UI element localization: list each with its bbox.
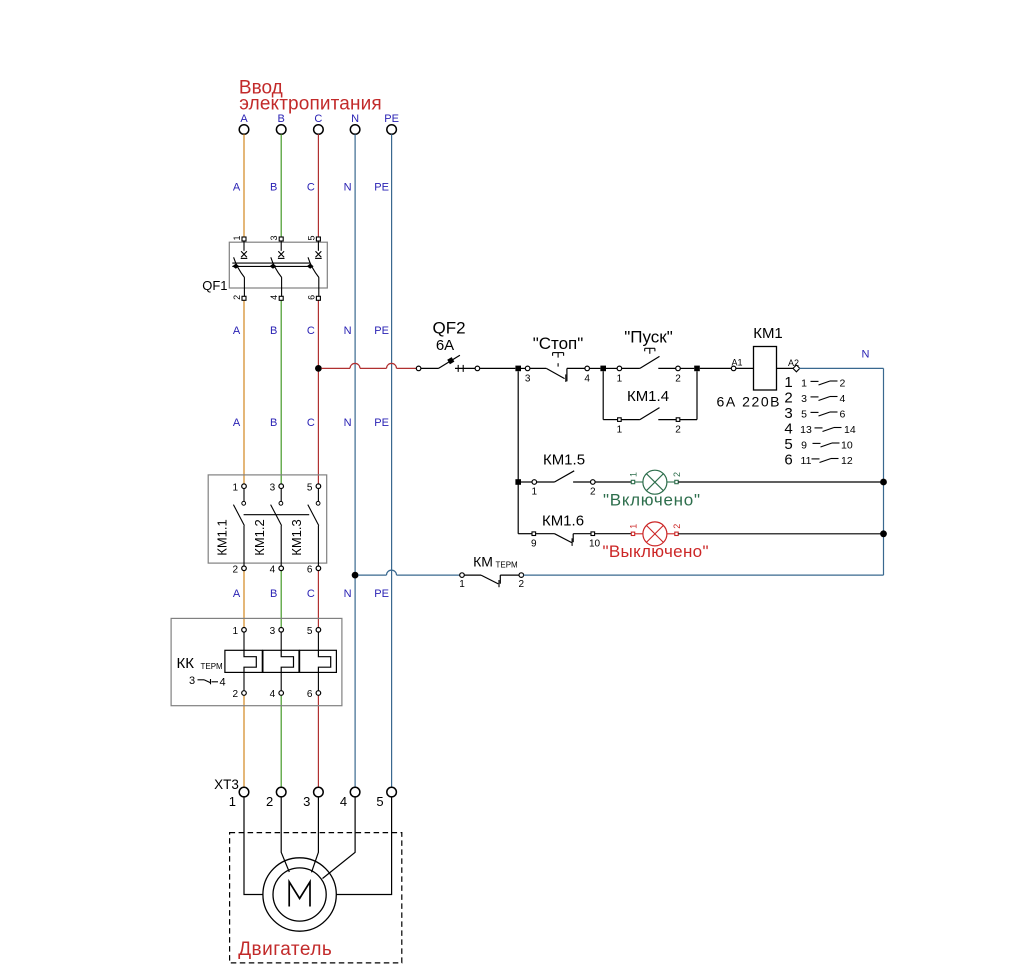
QF1 pole 3 <box>316 237 320 241</box>
svg-text:КМ1.3: КМ1.3 <box>289 519 304 555</box>
svg-text:10: 10 <box>589 539 601 550</box>
svg-text:4: 4 <box>340 794 347 809</box>
svg-text:5: 5 <box>376 794 383 809</box>
svg-text:3: 3 <box>303 794 310 809</box>
svg-text:А2: А2 <box>788 358 799 368</box>
svg-text:A: A <box>240 113 248 125</box>
wire PE (blue) <box>391 134 393 787</box>
svg-text:B: B <box>278 113 285 125</box>
svg-text:5: 5 <box>784 436 792 453</box>
svg-text:КМ1: КМ1 <box>753 325 783 342</box>
svg-text:5: 5 <box>307 626 313 637</box>
enclosure Двигатель (dashed) <box>230 833 402 963</box>
KM1 main pole КМ1.3 <box>316 484 321 489</box>
wire XT3-4 to motor <box>323 797 356 879</box>
node on N return (red lamp) <box>880 530 887 537</box>
svg-text:2: 2 <box>675 425 681 436</box>
XT3 terminal 3 <box>314 787 324 797</box>
svg-text:6: 6 <box>784 452 792 469</box>
svg-text:3: 3 <box>270 483 276 494</box>
svg-text:PE: PE <box>374 588 389 600</box>
XT3 terminal 1 <box>239 787 249 797</box>
svg-text:3: 3 <box>801 393 807 405</box>
KM1 main pole КМ1.2 <box>279 484 284 489</box>
node on wire N <box>352 572 359 579</box>
KK heater pole 1 <box>242 628 247 633</box>
svg-text:Двигатель: Двигатель <box>238 939 332 960</box>
XT3 terminal 4 <box>350 787 360 797</box>
svg-text:ТЕРМ: ТЕРМ <box>496 561 518 570</box>
svg-text:КМ1.5: КМ1.5 <box>543 452 585 469</box>
QF1 pole 1 <box>242 237 246 241</box>
svg-text:C: C <box>307 325 315 337</box>
svg-text:2: 2 <box>519 579 525 590</box>
svg-text:3: 3 <box>784 405 792 422</box>
svg-text:1: 1 <box>784 374 792 391</box>
node after Пуск <box>694 366 700 372</box>
QF1 tie bar <box>232 262 310 264</box>
svg-text:QF2: QF2 <box>432 319 465 338</box>
input terminal circles A B C N PE <box>239 125 249 135</box>
svg-text:6: 6 <box>306 295 316 300</box>
svg-text:КК: КК <box>177 655 195 672</box>
KM1 main pole КМ1.1 <box>242 484 247 489</box>
svg-text:N: N <box>344 182 352 194</box>
indicator lamp HL2 "Выключено" (red) <box>631 532 634 535</box>
svg-text:"Выключено": "Выключено" <box>603 542 709 561</box>
wire XT3-2 to motor <box>281 797 289 872</box>
Start actuator <box>645 347 655 349</box>
svg-text:1: 1 <box>532 487 538 498</box>
svg-text:1: 1 <box>617 425 623 436</box>
node KM1.5 <box>515 479 521 485</box>
svg-text:A: A <box>233 182 241 194</box>
wire phase C (red) <box>317 134 319 237</box>
Stop actuator <box>553 352 564 354</box>
svg-text:N: N <box>344 325 352 337</box>
wire N (blue) <box>354 134 356 787</box>
svg-text:4: 4 <box>270 689 276 700</box>
svg-text:A: A <box>233 588 241 600</box>
svg-text:2: 2 <box>675 374 681 385</box>
svg-text:6А 220В: 6А 220В <box>717 394 780 410</box>
wire XT3-1 to motor <box>244 797 263 895</box>
contactor main contacts KM1.1 KM1.2 KM1.3 <box>208 475 327 563</box>
svg-text:2: 2 <box>232 565 238 576</box>
wire XT3-5 to motor <box>336 797 391 895</box>
svg-text:4: 4 <box>584 374 590 385</box>
motor M1 <box>263 858 336 931</box>
svg-text:4: 4 <box>269 295 279 300</box>
node: tap on phase C <box>315 365 322 372</box>
svg-text:2: 2 <box>232 295 242 300</box>
wire control drop to KM1.5/KM1.6 <box>517 371 519 534</box>
terminal A2 <box>793 365 800 372</box>
svg-text:14: 14 <box>844 424 856 436</box>
svg-text:PE: PE <box>374 417 389 429</box>
svg-text:2: 2 <box>840 378 846 390</box>
svg-text:9: 9 <box>801 440 807 452</box>
svg-text:C: C <box>307 182 315 194</box>
svg-text:1: 1 <box>459 579 465 590</box>
node on N return (green lamp) <box>880 479 887 486</box>
svg-text:10: 10 <box>841 440 853 452</box>
svg-text:PE: PE <box>374 182 389 194</box>
svg-text:3: 3 <box>269 235 279 240</box>
svg-text:1: 1 <box>617 374 623 385</box>
node after QF2 <box>515 366 521 372</box>
svg-text:9: 9 <box>531 539 537 550</box>
svg-text:6: 6 <box>307 565 313 576</box>
svg-text:1: 1 <box>629 472 639 477</box>
svg-text:КМ1.6: КМ1.6 <box>542 513 584 530</box>
svg-text:12: 12 <box>841 455 853 467</box>
svg-text:1: 1 <box>229 794 236 809</box>
thermal overload relay KKтерм <box>171 618 342 705</box>
svg-text:C: C <box>314 113 322 125</box>
svg-text:PE: PE <box>374 325 389 337</box>
wire XT3-3 to motor <box>312 797 319 873</box>
node before Пуск <box>600 366 606 372</box>
svg-text:4: 4 <box>219 677 225 689</box>
circuit breaker QF1 <box>229 242 327 288</box>
svg-text:"Пуск": "Пуск" <box>624 328 673 347</box>
wire N tap to KMterm (blue) with hop over PE <box>358 574 386 576</box>
svg-text:А1: А1 <box>731 358 742 368</box>
wire phase B (green) <box>280 134 282 237</box>
QF1 pole 2 <box>279 237 283 241</box>
svg-text:2: 2 <box>232 689 238 700</box>
svg-text:6А: 6А <box>436 337 454 354</box>
wire phase A (orange) <box>243 134 245 237</box>
svg-text:3: 3 <box>270 626 276 637</box>
svg-text:ТЕРМ: ТЕРМ <box>201 662 223 671</box>
XT3 terminal 2 <box>276 787 286 797</box>
svg-text:B: B <box>270 182 277 194</box>
svg-text:1: 1 <box>232 235 242 240</box>
svg-text:N: N <box>351 113 359 125</box>
svg-text:1: 1 <box>801 378 807 390</box>
svg-text:B: B <box>270 325 277 337</box>
KK heater pole 2 <box>279 628 284 633</box>
svg-text:КМ1.1: КМ1.1 <box>215 519 230 555</box>
svg-text:КМ: КМ <box>473 554 493 570</box>
svg-text:2: 2 <box>784 390 792 407</box>
KM1 mechanical linkage <box>244 514 310 516</box>
svg-text:1: 1 <box>629 524 639 529</box>
svg-text:B: B <box>270 417 277 429</box>
svg-text:4: 4 <box>270 565 276 576</box>
svg-text:6: 6 <box>307 689 313 700</box>
svg-text:КМ1.4: КМ1.4 <box>627 388 669 405</box>
svg-text:C: C <box>307 417 315 429</box>
svg-text:6: 6 <box>840 409 846 421</box>
svg-text:3: 3 <box>189 675 195 687</box>
svg-text:A: A <box>233 325 241 337</box>
svg-text:электропитания: электропитания <box>239 94 382 115</box>
svg-text:1: 1 <box>232 483 238 494</box>
svg-text:N: N <box>344 588 352 600</box>
svg-text:11: 11 <box>801 455 812 467</box>
KK heater pole 3 <box>316 628 321 633</box>
svg-text:3: 3 <box>525 374 531 385</box>
svg-text:КМ1.2: КМ1.2 <box>252 519 267 555</box>
svg-text:5: 5 <box>306 235 316 240</box>
svg-text:4: 4 <box>784 421 792 438</box>
svg-text:2: 2 <box>672 472 682 477</box>
svg-text:PE: PE <box>384 113 399 125</box>
svg-text:ХТ3: ХТ3 <box>214 777 239 792</box>
svg-text:N: N <box>862 349 870 361</box>
svg-text:2: 2 <box>590 487 596 498</box>
svg-text:C: C <box>307 588 315 600</box>
svg-text:N: N <box>344 417 352 429</box>
wire control feed (red) with hops over N and PE <box>321 367 350 369</box>
svg-text:2: 2 <box>266 794 273 809</box>
svg-text:5: 5 <box>307 483 313 494</box>
svg-text:QF1: QF1 <box>202 278 227 293</box>
XT3 terminal 5 <box>387 787 397 797</box>
svg-text:"Стоп": "Стоп" <box>533 334 584 353</box>
svg-text:B: B <box>270 588 277 600</box>
svg-text:A: A <box>233 417 241 429</box>
svg-text:1: 1 <box>232 626 238 637</box>
svg-text:4: 4 <box>840 393 846 405</box>
svg-text:2: 2 <box>672 524 682 529</box>
indicator lamp HL1 "Включено" (green) <box>631 480 634 483</box>
svg-text:13: 13 <box>800 424 812 436</box>
svg-text:"Включено": "Включено" <box>603 491 700 510</box>
svg-text:5: 5 <box>801 409 807 421</box>
